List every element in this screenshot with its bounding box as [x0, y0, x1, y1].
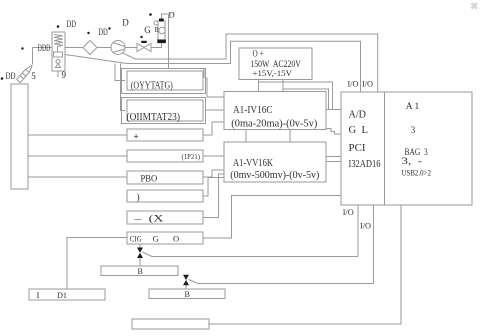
box PBO: [127, 171, 203, 184]
box bottom: [132, 319, 209, 329]
svg-text:– (X: – (X: [133, 214, 164, 225]
wire IV16C out 2: [326, 129, 341, 135]
wire interface IO down 2: [373, 205, 375, 284]
svg-text:✖: ✖: [470, 2, 478, 13]
svg-text:A1-VV16K: A1-VV16K: [233, 158, 273, 169]
dot: [108, 27, 110, 29]
svg-text:A/D: A/D: [349, 110, 367, 121]
dot: [149, 13, 152, 16]
wire chamber to 1P21 box: [28, 155, 127, 157]
relief circle: [56, 60, 60, 64]
wire pump to valve G: [125, 47, 137, 49]
svg-text:I/O: I/O: [360, 221, 371, 231]
wire CIG left to D1: [67, 238, 127, 290]
svg-text:CIG: CIG: [130, 233, 142, 243]
box I D1: [29, 289, 105, 300]
wire valve V2 to I/O: [189, 280, 374, 284]
box plus: [127, 129, 203, 141]
dot: [57, 25, 60, 28]
box OYYTATG: [127, 71, 203, 90]
svg-text:(0mv-500mv)-(0v-5v): (0mv-500mv)-(0v-5v): [230, 170, 319, 181]
svg-text:5: 5: [31, 71, 36, 81]
box paren: [127, 190, 203, 202]
dot: [87, 32, 89, 34]
wire IV16C out 1: [326, 109, 341, 111]
svg-text:+15V,-15V: +15V,-15V: [253, 68, 293, 78]
box B2: [149, 289, 225, 299]
regulator DDD: [52, 32, 65, 77]
box CIG G O: [127, 232, 203, 244]
wire IV16C to VV16K 1: [245, 130, 247, 143]
svg-text:A1-IV16C: A1-IV16C: [233, 105, 273, 116]
flow meter B: [154, 19, 166, 44]
box A1-VV16K: [224, 142, 326, 182]
box 1P21: [127, 150, 203, 162]
svg-text:B: B: [155, 25, 159, 34]
svg-text:(OIIMTAT23): (OIIMTAT23): [127, 112, 181, 123]
wire flow meter top to node D and down: [162, 14, 205, 78]
wire OYYTATG to A1-IV16C: [205, 78, 224, 97]
svg-text:3: 3: [411, 125, 416, 135]
wire power right 2: [283, 89, 329, 110]
svg-text:B: B: [138, 267, 143, 276]
box A1-IV16C: [224, 92, 326, 130]
wire plus to IV16C: [203, 122, 224, 135]
svg-text:D: D: [122, 17, 129, 27]
svg-text:G: G: [153, 233, 159, 243]
valve V1: [137, 244, 143, 266]
wire OIIMTAT23 to A1-IV16C: [205, 109, 224, 111]
wire CIG to interface: [203, 196, 341, 239]
wire chamber to PBO box: [28, 176, 127, 178]
svg-text:DD: DD: [6, 71, 16, 81]
box OYYTATG outer: [122, 69, 206, 94]
svg-text:O: O: [173, 233, 179, 243]
wire 1P21 to VV16K: [203, 155, 224, 157]
svg-text:I: I: [37, 290, 40, 300]
wire minus X to VV16K: [203, 174, 224, 218]
power supply box: [239, 48, 312, 80]
wire VV16K out 1: [326, 156, 341, 158]
svg-text:): ): [137, 192, 140, 203]
nozzle DD 5: [17, 65, 33, 83]
svg-text:(1P21): (1P21): [182, 153, 201, 161]
svg-text:DD: DD: [98, 27, 108, 37]
svg-text:O +: O +: [253, 49, 264, 59]
wire valve V1 to I/O: [143, 252, 359, 257]
svg-text:USB2.0>2: USB2.0>2: [402, 168, 431, 178]
wire valve G to flow meter: [151, 43, 162, 48]
wire chamber to plus box: [28, 134, 127, 136]
dot: [21, 47, 23, 49]
valve G: [137, 41, 151, 52]
svg-text:G: G: [144, 25, 151, 35]
spring: [54, 35, 63, 47]
wire power to IV16C: [258, 80, 260, 93]
svg-text:I/O: I/O: [343, 207, 354, 217]
relief triangle: [56, 64, 61, 68]
dot: [1, 77, 4, 80]
wire main pneumatic line: [33, 48, 53, 65]
svg-text:I/O: I/O: [348, 79, 359, 89]
valve body: [54, 52, 63, 57]
wire IV16C to VV16K 2: [289, 130, 291, 143]
svg-text:D: D: [169, 9, 175, 19]
box OIIMTAT23 outer: [122, 98, 206, 124]
chamber: [11, 84, 28, 189]
wire VV16K out 2: [326, 161, 341, 163]
stub below: [57, 71, 59, 77]
wire branch to sensor 2: [121, 64, 126, 111]
svg-text:I/O: I/O: [362, 79, 373, 89]
svg-text:PBO: PBO: [141, 174, 158, 184]
wire interface IO down 1: [357, 205, 359, 257]
svg-text:DD: DD: [67, 19, 77, 29]
wire B regulator to I/O top: [65, 41, 361, 92]
svg-text:+: +: [134, 132, 139, 142]
wire PBO to VV16K: [203, 170, 224, 177]
svg-text:D1: D1: [57, 290, 67, 300]
pump P: [111, 41, 125, 55]
svg-text:G L: G L: [349, 125, 369, 136]
wire power right 1: [259, 82, 333, 110]
svg-text:B: B: [185, 290, 190, 299]
box minus X: [127, 211, 203, 224]
filter F: [83, 41, 97, 55]
box B1: [101, 266, 178, 276]
svg-text:A 1: A 1: [406, 101, 420, 111]
svg-text:PCI: PCI: [349, 143, 366, 154]
wire A pump to I/O top: [123, 34, 378, 92]
svg-text:I32AD16: I32AD16: [349, 159, 381, 170]
svg-text:9: 9: [62, 70, 67, 80]
svg-text:3, -: 3, -: [402, 156, 423, 166]
dot: [140, 36, 142, 38]
wire power to IV16C 2: [282, 80, 284, 93]
wire filter to pump: [97, 47, 111, 49]
wire branch to sensor 1: [115, 64, 125, 81]
box OIIMTAT23: [127, 100, 203, 121]
wire paren to VV16K: [203, 178, 224, 197]
interface box PCI: [341, 92, 472, 205]
wire regulator to filter: [65, 47, 83, 49]
valve V2: [183, 275, 189, 289]
wire bottom box to interface: [209, 205, 401, 324]
svg-text:(OYYTATG): (OYYTATG): [131, 81, 173, 92]
svg-text:DDD: DDD: [38, 43, 51, 53]
divider: [384, 92, 386, 205]
svg-text:(0ma-20ma)-(0v-5v): (0ma-20ma)-(0v-5v): [231, 118, 317, 129]
